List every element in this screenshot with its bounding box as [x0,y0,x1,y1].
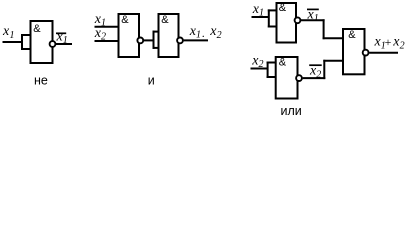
svg-text:2: 2 [217,30,222,41]
wire stub pin 2 [21,48,31,50]
svg-text:&: & [161,14,169,26]
output label x1 [374,35,386,52]
svg-text:1: 1 [314,13,319,24]
wire stub pin 2 [268,26,278,28]
overline of x2 inverted [309,64,322,66]
svg-text:2: 2 [316,69,321,80]
wire output [184,39,208,41]
svg-text:1: 1 [196,30,201,41]
wire into U6 bottom pin [323,60,344,62]
svg-text:и: и [148,73,155,87]
node fork bar into U4 [268,9,270,27]
node fork bar into U3 [153,31,155,49]
NAND gate U6 body [343,29,365,74]
wire input x1 [95,26,120,28]
net label x2 inverted [309,63,321,80]
inversion bubble U1 [50,41,56,47]
svg-text:&: & [279,57,287,69]
input label x1 [94,12,106,29]
wire stub pin 1 [268,9,278,11]
svg-text:&: & [279,2,287,14]
output label x1 [189,24,201,41]
NAND gate U1 body [31,21,53,63]
input label x1 [252,2,264,19]
wire output [56,43,72,45]
inversion bubble U6 [363,50,369,56]
svg-text:+: + [385,35,392,49]
svg-text:или: или [281,104,302,118]
overline of output label [56,32,66,34]
svg-text:2: 2 [400,41,405,52]
node fork bar into U5 [267,62,269,79]
wire stub pin 1 [21,34,31,36]
wire stub pin 1 [153,31,160,33]
wire stub pin 2 [267,76,277,78]
NAND gate U2 body [119,14,140,57]
wire U4 output horizontal [301,19,325,21]
wire input x2 [95,40,120,42]
output label x2 [209,24,221,41]
wire stub pin 1 [267,62,277,64]
svg-text:1: 1 [10,30,15,41]
wire input x1 [3,41,23,43]
wire input x2 [251,68,268,70]
inversion bubble U5 [296,75,302,81]
NAND gate U4 body [277,3,297,43]
svg-text:1: 1 [63,35,68,46]
wire U5 output horizontal [303,77,326,79]
wire U4 output vertical down [323,19,325,39]
wire output [369,52,398,54]
NAND gate U3 body [159,14,179,57]
inversion bubble U4 [295,17,301,23]
input label x1 [2,24,15,41]
overline of x1 inverted [307,8,319,10]
net label x1 inverted [307,7,319,24]
output label x2 [392,35,404,52]
svg-text:&: & [33,23,41,35]
input label x2 [94,26,106,43]
wire input x1 [252,16,269,18]
NAND gate U5 body [276,57,298,99]
node fork bar (input tied to both pins) [21,34,23,50]
wire into U6 top pin [323,37,344,39]
wire U2 output to fork [144,39,155,41]
svg-text:&: & [121,14,129,26]
wire U5 output vertical up [323,60,325,79]
svg-text:&: & [348,29,356,41]
svg-text:.: . [202,26,205,40]
input label x2 [251,53,263,70]
wire stub pin 2 [153,47,160,49]
svg-text:не: не [34,73,48,87]
inversion bubble U3 [177,38,183,44]
inversion bubble U2 [137,38,143,44]
output label x1 inverted [56,29,68,46]
